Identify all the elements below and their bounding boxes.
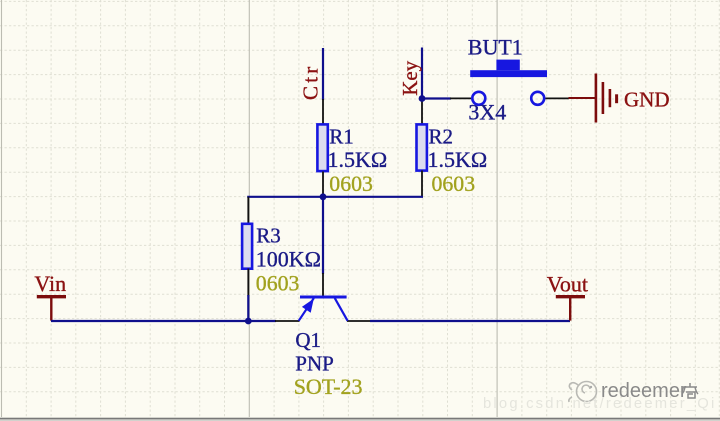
transistor Q1 emitter diagonal (299, 298, 314, 321)
svg-text:0603: 0603 (432, 172, 476, 196)
ground GND bar3 (609, 89, 612, 107)
svg-text:3X4: 3X4 (468, 100, 506, 125)
svg-text:R2: R2 (429, 125, 454, 149)
watermark qi glyph (682, 383, 698, 398)
transistor Q1 base bar (300, 296, 347, 299)
pin R3 pin2 (bottom) (247, 269, 249, 297)
pin R1 pin1 (top) (322, 99, 324, 124)
pin BUT1 pin2 lead (546, 97, 569, 99)
wire R3 to main rail (247, 295, 249, 322)
pin R2 pin2 (bottom) (421, 171, 423, 197)
pin BUT1 pin1 lead (450, 97, 471, 99)
port Vout bar (556, 295, 585, 298)
pin R1 pin2 (bottom) (322, 172, 324, 197)
wire main rail left (51, 320, 276, 322)
port Vin bar (37, 295, 66, 298)
transistor Q1 collector diagonal (335, 298, 348, 321)
svg-text:Ctr: Ctr (299, 64, 323, 100)
svg-text:0603: 0603 (329, 172, 373, 196)
transistor Q1 emitter arrow (302, 299, 314, 313)
svg-text:Key: Key (398, 60, 422, 95)
svg-text:GND: GND (624, 87, 670, 111)
wire Key net vertical stub (421, 48, 423, 99)
junction dot bus node (320, 193, 327, 200)
pin R3 pin1 (top) (247, 197, 249, 224)
junction dot rail node (245, 318, 252, 325)
svg-text:Vin: Vin (34, 271, 66, 296)
button BUT1 bar (470, 70, 547, 77)
ground GND bar2 (602, 82, 605, 114)
svg-text:Vout: Vout (547, 271, 588, 296)
port Vin stem (50, 297, 52, 321)
resistor R3 (242, 224, 252, 269)
svg-text:redeemer: redeemer (601, 380, 687, 402)
bottom border line (0, 418, 720, 420)
svg-text:Q1: Q1 (295, 328, 321, 352)
svg-text:PNP: PNP (295, 351, 334, 375)
wire Key to button (422, 97, 451, 99)
wire bus R1/R2 bottom (247, 196, 423, 198)
svg-text:BUT1: BUT1 (468, 34, 523, 59)
watermark csdn logo (569, 382, 597, 403)
ground GND bar4 (615, 94, 618, 103)
grid solid verticals (2, 0, 498, 417)
bottom light strip (0, 419, 720, 421)
ground GND bar1 (595, 74, 598, 123)
power port GND lead (569, 97, 596, 99)
resistor R2 (417, 124, 427, 170)
wire bus to Q1 base (322, 197, 324, 274)
button BUT1 pin2 circle (531, 92, 544, 105)
pin Q1 emitter pin (275, 320, 300, 322)
pin Q1 collector pin (347, 320, 371, 322)
pin R2 pin1 (top) (421, 99, 423, 125)
port Vout stem (569, 297, 571, 321)
resistor R1 (317, 124, 327, 171)
svg-text:R1: R1 (329, 125, 354, 149)
junction dot Key node (419, 95, 426, 102)
pin Q1 base pin (322, 273, 324, 297)
svg-text:SOT-23: SOT-23 (294, 374, 363, 399)
wire Ctr net vertical stub (322, 48, 324, 100)
svg-text:100KΩ: 100KΩ (256, 246, 321, 271)
button BUT1 pin1 circle (472, 92, 485, 105)
svg-text:1.5KΩ: 1.5KΩ (328, 147, 388, 172)
svg-text:1.5KΩ: 1.5KΩ (428, 147, 488, 172)
svg-text:0603: 0603 (256, 272, 300, 296)
svg-text:R3: R3 (256, 224, 281, 248)
button BUT1 actuator bump (496, 60, 519, 71)
wire main rail right (370, 320, 570, 322)
